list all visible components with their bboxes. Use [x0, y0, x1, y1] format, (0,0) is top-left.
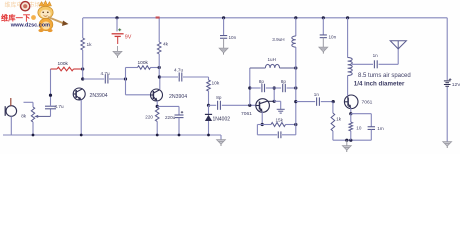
svg-text:10k: 10k [212, 80, 220, 86]
ground Q3 collector [277, 109, 285, 113]
svg-text:100k: 100k [138, 60, 149, 66]
svg-text:1m: 1m [377, 126, 384, 131]
svg-text:15k: 15k [276, 118, 284, 123]
svg-text:1uH: 1uH [268, 57, 276, 62]
capacitor C9 10n decoupling [222, 16, 225, 19]
resistor R5 4k collector load [158, 18, 160, 42]
svg-text:7061: 7061 [362, 99, 373, 105]
svg-text:4.7u: 4.7u [174, 67, 184, 72]
wire C1 top to Q1 base node [50, 95, 52, 106]
resistor R7 10k [208, 77, 210, 80]
wire pot top stub [24, 101, 34, 103]
capacitor C2 4.7u coupling [104, 75, 106, 84]
wire C5 to Q3 base [222, 104, 257, 106]
svg-text:9V: 9V [125, 35, 132, 41]
svg-text:7061: 7061 [241, 111, 252, 117]
svg-text:1n: 1n [373, 53, 379, 58]
node rail-9V junction [115, 16, 118, 19]
wire Q2 base node [124, 77, 127, 80]
capacitor C10 10n decoupling [322, 16, 325, 19]
antenna ANT1 [397, 49, 399, 64]
svg-text:4.7u: 4.7u [55, 104, 65, 109]
wire Q1 collector node [81, 77, 84, 80]
svg-text:1k: 1k [336, 116, 341, 121]
wire Q1 base node vertical [50, 69, 52, 95]
node rail red mark [156, 16, 160, 18]
ground 9V [117, 46, 119, 51]
wire mic to ground rail [10, 116, 12, 135]
svg-text:2N3904: 2N3904 [169, 94, 187, 100]
resistor R9 1k base bias [332, 102, 334, 113]
svg-text:维库一下: 维库一下 [1, 13, 31, 22]
svg-text:1n: 1n [314, 92, 320, 97]
svg-text:10n: 10n [329, 35, 337, 40]
svg-text:8.5 turns air spaced: 8.5 turns air spaced [358, 73, 411, 79]
microphone MIC1 [4, 106, 6, 116]
svg-text:www.dzsc.com: www.dzsc.com [10, 23, 50, 29]
transistor Q1 2N3904 [73, 88, 108, 100]
transistor Q2 2N3904 [151, 89, 188, 101]
wire top supply rail [83, 17, 447, 19]
svg-text:220u: 220u [165, 115, 176, 120]
resistor R6 220 emitter [156, 101, 158, 107]
svg-text:3.9uH: 3.9uH [272, 37, 284, 42]
svg-text:220: 220 [145, 115, 153, 120]
svg-text:4.7u: 4.7u [101, 71, 111, 76]
ground 12V [443, 142, 452, 148]
wire Q3 base riser [249, 68, 251, 105]
wire tank cap junction to collector [273, 88, 275, 101]
resistor R8 15k emitter [261, 112, 263, 125]
svg-text:8p: 8p [281, 79, 287, 84]
svg-text:1/4 inch diameter: 1/4 inch diameter [354, 81, 405, 88]
resistor R3 1k collector load [82, 18, 84, 38]
resistor R2 100k feedback (red) [51, 68, 58, 70]
ground C10 [319, 47, 328, 53]
svg-text:10: 10 [356, 126, 362, 131]
wire 9V battery lead [116, 18, 118, 32]
ground bottom-rail [217, 140, 226, 146]
wire Q1 emitter to ground rail [80, 100, 82, 135]
svg-text:8k: 8k [21, 114, 27, 119]
ground C9 [219, 48, 228, 54]
wire Q3 collector node [267, 100, 274, 102]
svg-text:4k: 4k [163, 42, 169, 48]
svg-text:10n: 10n [229, 35, 237, 40]
capacitor C11 1n coupling [296, 101, 315, 103]
capacitor C7 8p tank [274, 87, 281, 89]
capacitor C6 8p tank [250, 87, 261, 89]
svg-text:2N3904: 2N3904 [90, 93, 108, 99]
pot wiper arrow [37, 115, 51, 117]
wire right rail drop [446, 18, 448, 80]
battery B1 9V [112, 28, 132, 44]
ground Q4 bus [346, 140, 348, 145]
svg-text:8p: 8p [216, 95, 222, 100]
capacitor C1 4.7u [50, 109, 52, 117]
capacitor C12 1m emitter bypass [351, 113, 372, 115]
potentiometer R1 8k [31, 107, 34, 122]
svg-text:1k: 1k [87, 42, 93, 48]
capacitor C13 1n antenna coupling [352, 63, 373, 65]
inductor L3 8.5 turns coil [346, 16, 349, 19]
wire Q2 collector [158, 68, 160, 78]
wire bottom ground rail [3, 134, 221, 136]
transistor Q4 7061 output [344, 95, 372, 109]
capacitor C3 220u emitter bypass [157, 105, 179, 107]
wire choke node down [295, 88, 297, 125]
resistor R10 10 emitter [350, 108, 352, 114]
svg-text:100k: 100k [58, 61, 69, 67]
battery B2 12V [444, 78, 460, 88]
capacitor C5 8p [209, 104, 217, 106]
diode D1 1N4002 [208, 105, 210, 114]
wire 12V to ground [446, 87, 448, 142]
svg-text:1N4002: 1N4002 [213, 117, 231, 123]
wire Q2 collector to C4 [159, 76, 178, 78]
transistor Q3 7061 oscillator [241, 99, 269, 117]
capacitor C8 feedback loop [256, 125, 258, 135]
capacitor C4 4.7u coupling [178, 73, 180, 82]
wire pot to ground rail [32, 122, 34, 135]
inductor L2 3.9uH choke [294, 16, 297, 19]
wire Q4 bottom bus [333, 139, 371, 141]
svg-text:12V: 12V [452, 82, 460, 88]
inductor L1 1uH [250, 67, 266, 69]
svg-text:8p: 8p [259, 79, 265, 84]
resistor R4 100k feedback [126, 67, 138, 69]
